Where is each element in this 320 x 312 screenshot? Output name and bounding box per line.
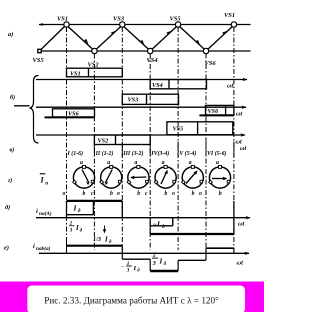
section a: firing order zigzag bbox=[39, 23, 251, 51]
pulse VS4 bbox=[150, 80, 206, 89]
step down at 120 bbox=[121, 201, 123, 218]
section g: current vector circles bbox=[8, 176, 48, 187]
svg-text:ωt: ωt bbox=[238, 220, 245, 227]
-Id label compartment bbox=[172, 218, 174, 226]
zigzag arrowheads bbox=[84, 31, 228, 46]
level -1/3 b bbox=[178, 259, 206, 261]
svg-text:ωt: ωt bbox=[227, 83, 233, 90]
level +1/3 bbox=[67, 245, 123, 247]
svg-text:а: а bbox=[189, 160, 192, 166]
svg-text:c: c bbox=[145, 191, 148, 197]
svg-text:в): в) bbox=[10, 146, 15, 153]
svg-text:а: а bbox=[216, 160, 219, 166]
node VS6 bbox=[203, 48, 208, 53]
section v: interval labels row bbox=[94, 140, 234, 157]
gridline VS3 bbox=[121, 27, 123, 250]
tick dash bbox=[14, 105, 30, 107]
axis d bbox=[36, 217, 250, 219]
separator 6 bbox=[233, 142, 235, 157]
svg-text:o: o bbox=[172, 191, 175, 197]
step up at 0 bbox=[66, 201, 68, 218]
separator 1 bbox=[93, 142, 95, 157]
svg-text:1/3: 1/3 bbox=[93, 236, 101, 243]
gridline VS1 bbox=[66, 27, 68, 250]
axis 3 bbox=[36, 134, 245, 136]
svg-text:д): д) bbox=[5, 204, 10, 211]
zigzag VS6->VS1b bbox=[208, 27, 233, 50]
zigzag VS5->VS1 bbox=[41, 26, 65, 50]
node VS3 bbox=[120, 22, 125, 27]
svg-text:I (1-6): I (1-6) bbox=[67, 150, 84, 157]
svg-text:VS1: VS1 bbox=[224, 12, 235, 19]
svg-text:b: b bbox=[110, 191, 113, 197]
pulse VS1 bbox=[67, 68, 123, 77]
vector circle III bbox=[128, 167, 149, 188]
gridline VS2 bbox=[93, 54, 95, 251]
svg-text:г): г) bbox=[8, 177, 12, 184]
level -1/3 bbox=[122, 258, 150, 260]
circle letter labels bbox=[63, 160, 222, 197]
svg-text:I: I bbox=[75, 225, 79, 232]
step at 360 bbox=[233, 248, 235, 253]
svg-text:ωt: ωt bbox=[237, 260, 244, 267]
svg-text:VS6: VS6 bbox=[68, 110, 80, 117]
level +1/3 b bbox=[206, 247, 234, 249]
2/3 Id annotation bbox=[69, 222, 83, 234]
separator 2 bbox=[121, 142, 123, 157]
top rail bbox=[39, 24, 251, 26]
svg-text:VS4: VS4 bbox=[147, 57, 158, 64]
step at 240 bbox=[177, 260, 179, 271]
svg-text:3: 3 bbox=[152, 260, 156, 267]
svg-text:д: д bbox=[162, 223, 165, 230]
svg-text:VS5: VS5 bbox=[170, 16, 182, 23]
svg-text:−: − bbox=[121, 264, 124, 270]
pulse VS3 bbox=[122, 94, 178, 104]
gridline VS6 bbox=[205, 54, 207, 251]
step at 300 bbox=[205, 248, 207, 260]
svg-text:c: c bbox=[91, 191, 94, 197]
node VS4 bbox=[148, 48, 153, 53]
svg-text:I: I bbox=[104, 236, 108, 243]
svg-text:а: а bbox=[107, 160, 110, 166]
svg-text:I: I bbox=[133, 265, 137, 272]
grid dash-dot verticals bbox=[67, 27, 234, 250]
svg-text:VS3: VS3 bbox=[128, 97, 139, 104]
brace bbox=[30, 76, 39, 144]
svg-text:VS6: VS6 bbox=[205, 60, 217, 67]
svg-text:II (1-2): II (1-2) bbox=[95, 150, 114, 157]
magenta highlight stripe bbox=[0, 282, 264, 312]
gridline VS1b bbox=[233, 27, 235, 250]
svg-text:VS3: VS3 bbox=[113, 16, 125, 23]
svg-text:а: а bbox=[80, 160, 83, 166]
svg-text:а): а) bbox=[8, 31, 13, 38]
svg-text:VS2: VS2 bbox=[98, 138, 109, 145]
separator 3 bbox=[149, 140, 151, 157]
I bar overline bbox=[40, 173, 46, 175]
Id label compartment bbox=[92, 201, 94, 215]
svg-text:п: п bbox=[45, 180, 48, 186]
axis 1 bbox=[36, 79, 247, 81]
section b labels bbox=[10, 71, 242, 146]
node VS5 bbox=[175, 22, 180, 27]
svg-text:е): е) bbox=[4, 245, 9, 252]
svg-text:д: д bbox=[78, 207, 81, 214]
start square VS5 bbox=[38, 49, 41, 52]
svg-text:б): б) bbox=[10, 94, 15, 101]
step at 120 bbox=[121, 246, 123, 260]
gridline VS5 bbox=[177, 27, 179, 250]
node circles top bbox=[38, 22, 237, 54]
svg-text:VS1: VS1 bbox=[70, 71, 81, 78]
caption box bbox=[27, 286, 245, 312]
svg-text:o: o bbox=[63, 191, 66, 197]
zigzag VS2->VS3 bbox=[96, 27, 121, 50]
svg-text:b: b bbox=[219, 191, 222, 197]
svg-text:ωt: ωt bbox=[240, 145, 246, 152]
svg-text:3: 3 bbox=[69, 228, 73, 233]
-Id level bbox=[150, 233, 234, 235]
pulse VS2 bbox=[94, 135, 150, 145]
separator 4 bbox=[177, 142, 179, 157]
svg-text:VS1: VS1 bbox=[57, 16, 68, 23]
svg-text:VI (5-6): VI (5-6) bbox=[207, 150, 227, 157]
pulse VS6 left bbox=[53, 109, 95, 117]
zigzag VS3->VS4 bbox=[124, 27, 149, 50]
circle terminals bbox=[73, 165, 230, 184]
step down at 180 bbox=[149, 218, 151, 234]
svg-text:b: b bbox=[192, 191, 195, 197]
svg-text:b: b bbox=[137, 191, 140, 197]
step up at 360 bbox=[233, 201, 235, 235]
svg-text:V (5-4): V (5-4) bbox=[179, 150, 196, 157]
level -2/3 bbox=[150, 270, 178, 272]
axis e bbox=[39, 252, 249, 254]
pulse VS6 right bbox=[206, 105, 234, 115]
vector circle I bbox=[73, 167, 94, 188]
svg-text:Рис. 2.33. Диаграмма работы АИ: Рис. 2.33. Диаграмма работы АИТ с λ = 12… bbox=[44, 295, 219, 305]
+Id level bbox=[67, 200, 123, 202]
svg-text:а: а bbox=[162, 160, 165, 166]
node VS1 bbox=[64, 22, 69, 27]
svg-text:а: а bbox=[134, 160, 137, 166]
section d labels bbox=[5, 204, 245, 231]
svg-text:i: i bbox=[36, 208, 38, 215]
svg-text:I: I bbox=[159, 258, 163, 266]
svg-text:VS4: VS4 bbox=[152, 82, 163, 89]
section e labels bbox=[4, 243, 243, 267]
svg-text:i: i bbox=[33, 243, 35, 250]
pulse VS5 bbox=[167, 122, 233, 135]
-1/3 Id annotation bbox=[121, 261, 140, 274]
vector circle IV bbox=[155, 167, 176, 188]
1/3 Id annotation with arrow bbox=[104, 226, 106, 232]
vector circle VI bbox=[209, 167, 230, 188]
axis 2 bbox=[36, 106, 246, 108]
svg-text:VS5: VS5 bbox=[33, 57, 45, 64]
svg-text:III (3-2): III (3-2) bbox=[122, 150, 143, 157]
svg-text:2: 2 bbox=[152, 252, 156, 259]
zigzag VS4->VS5 bbox=[152, 27, 177, 50]
zigzag VS1->VS2 bbox=[68, 27, 93, 50]
svg-text:па(А): па(А) bbox=[39, 210, 52, 217]
svg-text:3: 3 bbox=[126, 268, 130, 274]
svg-text:ωt: ωt bbox=[236, 111, 242, 118]
node VS2 bbox=[92, 48, 97, 53]
vector circle II bbox=[101, 167, 122, 188]
svg-text:b: b bbox=[83, 191, 86, 197]
svg-text:паb(а): паb(а) bbox=[36, 245, 51, 252]
vector circle V bbox=[182, 167, 203, 188]
step at 0 bbox=[66, 237, 68, 253]
svg-text:−I: −I bbox=[153, 220, 162, 229]
svg-text:VS5: VS5 bbox=[173, 126, 184, 133]
zigzag VS5->VS6 bbox=[180, 27, 205, 50]
separator 5 bbox=[205, 142, 207, 157]
step at 180 bbox=[149, 259, 151, 271]
svg-text:VS6: VS6 bbox=[208, 108, 220, 115]
svg-text:o: o bbox=[117, 191, 120, 197]
gridline VS4 bbox=[149, 54, 151, 251]
bottom rail bbox=[40, 50, 251, 52]
node VS1b bbox=[231, 22, 236, 27]
svg-text:VS2: VS2 bbox=[88, 62, 100, 69]
svg-text:IV(3-4): IV(3-4) bbox=[150, 150, 169, 157]
2/3 Id annotation big bbox=[152, 252, 167, 268]
section a labels bbox=[8, 12, 235, 69]
svg-text:o: o bbox=[199, 191, 202, 197]
svg-text:b: b bbox=[164, 191, 167, 197]
